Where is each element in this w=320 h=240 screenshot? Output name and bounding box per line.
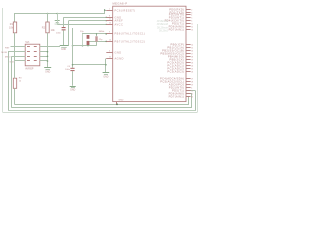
svg-text:AGND: AGND [115,57,124,61]
svg-text:19: 19 [191,84,193,86]
svg-text:GND: GND [61,49,66,51]
svg-text:4: 4 [191,87,192,89]
label pin ADC6/PC0 right [169,83,185,87]
svg-text:6: 6 [191,20,192,22]
svg-text:11: 11 [191,23,193,25]
wire GND rail [73,45,97,47]
ground GND4 [103,73,110,79]
label SV1 [25,42,30,44]
pin AREF stub [106,19,112,21]
svg-text:PC3(ADC3): PC3(ADC3) [167,70,184,74]
svg-text:17: 17 [191,53,193,55]
label C2 value [99,39,103,41]
svg-text:GND: GND [45,72,50,74]
label info 3 [157,27,169,30]
label Q1 value [99,31,105,33]
IC U1 body [113,6,186,101]
wire pd7 stub [186,96,189,98]
svg-text:GND: GND [103,76,108,78]
wire wrap1 vertical right [188,97,190,105]
svg-text:R3: R3 [19,77,23,79]
svg-text:19: 19 [191,59,193,61]
label pin AREF [115,19,124,23]
node bottom gnd junction [116,103,118,105]
svg-text:14: 14 [191,44,193,46]
svg-text:18: 18 [191,56,193,58]
wire AREF [69,20,107,21]
svg-text:21: 21 [109,19,111,21]
label pin PB2(SS/OC1B) right [162,49,184,53]
wire GND vertical [63,17,65,27]
label net row2 [1,52,7,54]
ground bar GND2 [60,46,69,52]
label pin PD2(INT0) right [169,13,185,17]
svg-text:8MHz: 8MHz [99,31,105,33]
svg-text:25: 25 [191,68,193,70]
label pin GND [115,51,122,55]
wire R3 bottom lead [14,88,16,105]
label pin PD3(INT1) right [169,16,185,20]
svg-text:3: 3 [109,51,110,53]
svg-text:GND: GND [119,99,124,101]
resistor R3 [13,78,16,88]
label pin PD6(AIN0) right [169,25,185,29]
pin IC bottom gnd [116,102,118,104]
pin PC6(/RESET) stub [106,9,112,11]
label pin PD1(TXD) right [170,11,185,15]
pin PD1(TXD) right stub [186,12,192,14]
label pin PC1(ADC1) right [167,64,184,68]
wire header row3 right [40,56,48,58]
node header vcc col r3 [47,56,49,58]
svg-text:GND: GND [70,90,75,92]
wire header row2 right [40,51,48,53]
label net row3 [5,57,11,59]
ground GND5 [44,68,51,74]
svg-text:11: 11 [191,90,193,92]
svg-text:C4: C4 [67,66,71,68]
label info 2 [157,23,169,26]
pin PD3(INT1) right stub [186,17,192,19]
svg-text:12: 12 [191,26,193,28]
capacitor C4 [70,68,74,71]
label R3 value [19,80,22,82]
label net row1 [5,47,10,49]
wire header row4 left [15,60,25,62]
crystal Q1 [95,36,97,42]
label pin PD2(INT0) right [169,86,185,90]
label pin PD4(XCK/T0) right [165,19,185,23]
label C1 value [80,31,84,33]
node rail-c2 [87,45,88,46]
pin ADC6/PC0 right stub [186,84,193,86]
wire VCC corner to reset pin [104,9,106,14]
pin PB3(MOSI/OC2) right stub [186,53,193,55]
svg-text:SCK: SCK [10,61,15,63]
svg-text:GND: GND [115,51,122,55]
svg-text:13: 13 [191,29,193,31]
label pin PB6(XTAL1/TOSC1) [115,32,146,36]
label pin PD0(RXD) right [169,8,184,12]
pin PD7(AIN1) right stub [186,29,193,31]
label R2 value [51,29,56,32]
label pin PB1(OC1A) right [167,46,184,50]
wire header row2 left [8,51,25,53]
wire R3 top lead [14,61,16,78]
pin PD2(INT0) right stub [186,87,192,89]
wire pd5 stub [186,90,196,92]
pin AGND stub [106,57,112,59]
pin PB1(OC1A) right stub [186,47,193,49]
wire C4 bottom lead [72,71,74,86]
pin PD5(T1) right stub [186,90,193,92]
svg-text:AVRISP: AVRISP [25,67,34,70]
label U1 name [113,1,128,5]
label C4 [67,66,71,68]
pin PD2(INT0) right stub [186,14,192,16]
label pin PB0(ICP) right [171,43,185,47]
svg-text:PD7(AIN1): PD7(AIN1) [169,95,185,99]
pin header row 1 [27,45,37,48]
svg-text:AREF: AREF [115,19,124,23]
wire wrap1 vertical left [11,56,13,108]
pin header row 2 [27,50,37,53]
label pin AVCC [115,23,124,27]
pin PC1(ADC1) right stub [186,65,193,67]
wire AVCC vertical [57,13,59,24]
label pin GND [115,16,122,20]
label pin PC3(ADC3) right [167,70,184,74]
pin GND stub [106,51,112,53]
svg-text:16: 16 [191,50,193,52]
wire wrap2 vertical right [191,94,193,108]
label pin AGND [115,57,124,61]
wire wrap3 bottom [8,110,196,112]
svg-text:13: 13 [191,96,193,98]
wire R2 top lead [47,13,49,22]
label C4 value [65,69,71,71]
node rail-left [72,45,74,47]
label IC bottom gnd pin [119,99,124,101]
capacitor C1 [87,35,90,39]
wire wrap3 vertical right [195,91,197,111]
wire header GND to bar [48,46,61,48]
svg-text:10: 10 [109,40,111,42]
svg-text:26: 26 [191,71,193,73]
label pin PD7(AIN1) right [169,28,185,32]
pin PC5(ADC5/SCL) right stub [186,81,193,83]
svg-text:RST: RST [5,47,10,49]
svg-text:100n: 100n [56,33,62,35]
label pin PB5(SCK) right [170,58,185,62]
label pin PB4(MISO) right [168,55,184,59]
label R1 [10,23,14,26]
svg-text:15: 15 [191,47,193,49]
wire GND pin [64,17,107,18]
wire AREF vertical [68,21,70,46]
wire C3 bottom lead [63,30,65,45]
node cap branch [82,45,84,47]
wire AGND vertical [105,59,107,73]
svg-text:MEGA8-P: MEGA8-P [113,1,128,5]
wire AGND stub wire [105,58,107,60]
svg-text:22p: 22p [99,39,103,41]
ground GND3 [70,87,76,92]
pin GND stub [106,16,112,18]
pin PB4(MISO) right stub [186,56,193,58]
svg-text:12: 12 [191,93,193,95]
svg-text:PB6(XTAL1/TOSC1): PB6(XTAL1/TOSC1) [115,32,146,36]
svg-text:28: 28 [191,81,193,83]
wire cap branch [82,34,84,46]
capacitor C2 [87,41,90,45]
label AVR-ISP [25,67,34,70]
pin PC3(ADC3) right stub [186,71,193,73]
svg-text:22: 22 [109,57,111,59]
pin PD4(XCK/T0) right stub [186,20,192,22]
resistor R2 [46,22,49,33]
svg-text:10k: 10k [51,29,56,32]
connector SV1 [25,44,40,66]
wire XTAL1 [82,33,107,35]
label info 4 [159,30,169,33]
svg-text:24: 24 [191,65,193,67]
wire header row1 left [11,46,26,48]
svg-text:9: 9 [109,32,110,34]
pin PD6(AIN0) right stub [186,26,193,28]
svg-text:22p: 22p [80,31,84,33]
wire wrap2 vertical left [8,52,10,111]
pin header row 3 [27,55,37,58]
wire GND branch vertical [72,28,74,68]
svg-text:AVCC: AVCC [115,23,124,27]
svg-text:PD7(AIN1): PD7(AIN1) [169,28,185,32]
label pin PB3(MOSI/OC2) right [160,52,184,56]
wire VCC-GND branch [73,64,107,66]
pin PB5(SCK) right stub [186,59,193,61]
svg-text:DIL28n2: DIL28n2 [159,30,169,33]
label pin PC0(ADC0) right [167,61,184,65]
wire header row4 right [40,60,48,62]
resistor R1 [13,22,16,33]
svg-text:PC6(/RESET): PC6(/RESET) [115,9,136,13]
svg-text:1k: 1k [19,80,22,82]
svg-text:MISO: MISO [5,57,11,59]
svg-text:4: 4 [191,14,192,16]
wire header row3 left [12,56,26,58]
pin PD6(AIN0) right stub [186,93,193,95]
wire pd6 stub [186,93,192,95]
wire Q1 top lead [96,33,97,36]
pin PB2(SS/OC1B) right stub [186,50,193,52]
label pin PD6(AIN0) right [169,92,185,96]
ground GND1 [55,21,60,27]
svg-text:27: 27 [191,78,193,80]
label net row4 [10,61,15,63]
pin PB6(XTAL1/TOSC1) stub [106,32,112,34]
node AGND junction [105,64,107,66]
pin PD5(T1) right stub [186,23,193,25]
wire Q1 bottom lead [96,42,98,46]
pin AVCC stub [106,23,112,25]
wire VCC rail [15,13,105,15]
svg-text:1: 1 [109,9,110,11]
svg-text:MOSI: MOSI [1,52,7,54]
svg-text:20: 20 [109,23,111,25]
label pin PC4(ADC4/SDA) right [160,77,184,81]
label pin PD5(T1) right [172,22,184,26]
wire GND stub [57,13,59,20]
label pin PD7(AIN1) right [169,95,185,99]
pin PD0(RXD) right stub [186,9,192,11]
svg-text:PB7(XTAL2/TOSC2): PB7(XTAL2/TOSC2) [115,40,146,44]
capacitor C3 [56,27,66,35]
label pin PD5(T1) right [172,89,184,93]
label info 1 [157,20,169,23]
pin PC0(ADC0) right stub [186,62,193,64]
pin header row 4 [27,59,37,62]
label pin PC5(ADC5/SCL) right [160,80,184,84]
label R3 [19,77,23,79]
svg-text:SV1: SV1 [25,42,30,44]
wire R2 bottom lead [47,33,49,68]
svg-text:2: 2 [191,9,192,11]
label R1 value [9,27,14,30]
wire wrap2 bottom [12,107,193,109]
pin PB0(ICP) right stub [186,44,193,46]
svg-text:23: 23 [191,62,193,64]
wire AVCC [57,24,107,25]
pin PC4(ADC4/SDA) right stub [186,78,193,80]
svg-text:R2: R2 [42,26,46,29]
label R2 [42,26,46,29]
label pin PB7(XTAL2/TOSC2) [115,40,146,44]
node VCC junction at GND stub [56,13,58,15]
wire XTAL2 [87,41,107,43]
node header vcc col r2 [47,51,49,53]
wire R1 bottom lead [14,33,16,62]
frame border [3,8,198,113]
pin PD7(AIN1) right stub [186,96,193,98]
node VCC junction at R2 [47,13,49,15]
label pin PC2(ADC2) right [167,67,184,71]
svg-text:100n: 100n [65,69,71,71]
label pin PC6(/RESET) [115,9,136,13]
pin PB7(XTAL2/TOSC2) stub [106,40,112,42]
svg-text:5: 5 [191,17,192,19]
pin PC2(ADC2) right stub [186,68,193,70]
node branch [72,64,74,66]
wire header row1 right [40,46,48,48]
wire wrap1 bottom [15,104,189,106]
svg-text:8: 8 [109,16,110,18]
node header vcc col r4 [47,60,49,62]
wire R1 top lead [14,13,16,22]
